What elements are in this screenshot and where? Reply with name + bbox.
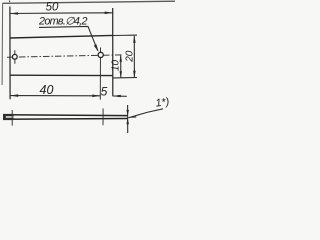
- dim 20 bottom extension line (shared with dim 10): [113, 77, 137, 79]
- side view left end (dark cap): [3, 114, 14, 120]
- left plate edge + extension line (dim 50 / dim 40): [9, 7, 11, 100]
- arrow right of dim 40: [92, 95, 100, 98]
- dim 5 outside segment + arrow: [113, 95, 127, 97]
- leader to note 1*): [128, 109, 163, 118]
- plate bottom edge: [10, 74, 113, 76]
- svg-text:2отв.∅4,2: 2отв.∅4,2: [38, 16, 88, 28]
- hole left: [12, 54, 17, 59]
- plate top edge: [10, 35, 113, 38]
- dim 10 line with arrows: [120, 55, 122, 77]
- arrow right of dim 50: [105, 12, 113, 15]
- left hole vertical centerline: [14, 50, 16, 64]
- horizontal centerline (dash-dot) through holes: [7, 55, 122, 57]
- dim 40 line: [10, 95, 100, 97]
- thickness arrows: [126, 110, 129, 116]
- thickness dim line (vertical, crossing strip end): [127, 105, 129, 133]
- svg-text:10: 10: [111, 60, 122, 72]
- svg-text:5: 5: [101, 85, 108, 99]
- leader arrowhead: [94, 44, 99, 52]
- side view strip top edge: [3, 114, 128, 117]
- dim 20 line with arrows: [133, 36, 135, 78]
- frame left line: [1, 3, 4, 85]
- left hole centerline through side view: [11, 110, 13, 126]
- extension tick above left edge: [9, 0, 11, 2]
- short dash right of thickness dim: [131, 116, 136, 118]
- leader underline + slant to right hole: [39, 26, 98, 50]
- right hole centerline through side view: [102, 109, 104, 126]
- dim line 50: [10, 12, 113, 15]
- frame top line: [2, 1, 175, 3]
- right hole vertical centerline + extension down (dims 40/5): [99, 47, 101, 99]
- hole right: [98, 52, 103, 57]
- svg-text:50: 50: [46, 2, 59, 14]
- arrow left of dim 40: [10, 94, 18, 97]
- svg-text:20: 20: [124, 50, 135, 63]
- svg-text:40: 40: [40, 83, 54, 97]
- dim 20 top extension line: [113, 34, 137, 36]
- side view strip bottom edge: [3, 118, 128, 121]
- arrow left of dim 50: [10, 12, 18, 15]
- right plate edge + extension line (dim 50 / dim 5): [112, 8, 114, 96]
- svg-text:1*): 1*): [155, 96, 170, 110]
